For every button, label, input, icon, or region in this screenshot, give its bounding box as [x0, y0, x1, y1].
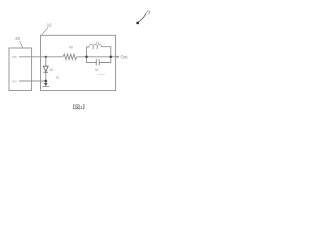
svg-text:41: 41	[96, 41, 100, 45]
svg-text:PW: PW	[12, 55, 17, 59]
svg-text:42: 42	[95, 68, 99, 72]
svg-text:31: 31	[56, 75, 60, 79]
svg-text:GN: GN	[12, 79, 17, 83]
svg-text:30: 30	[49, 68, 53, 72]
svg-text:Out: Out	[121, 54, 129, 59]
svg-text:40: 40	[69, 45, 73, 49]
svg-text:【図1】: 【図1】	[70, 105, 87, 111]
svg-text:20: 20	[15, 36, 20, 41]
svg-text:10: 10	[47, 23, 52, 28]
